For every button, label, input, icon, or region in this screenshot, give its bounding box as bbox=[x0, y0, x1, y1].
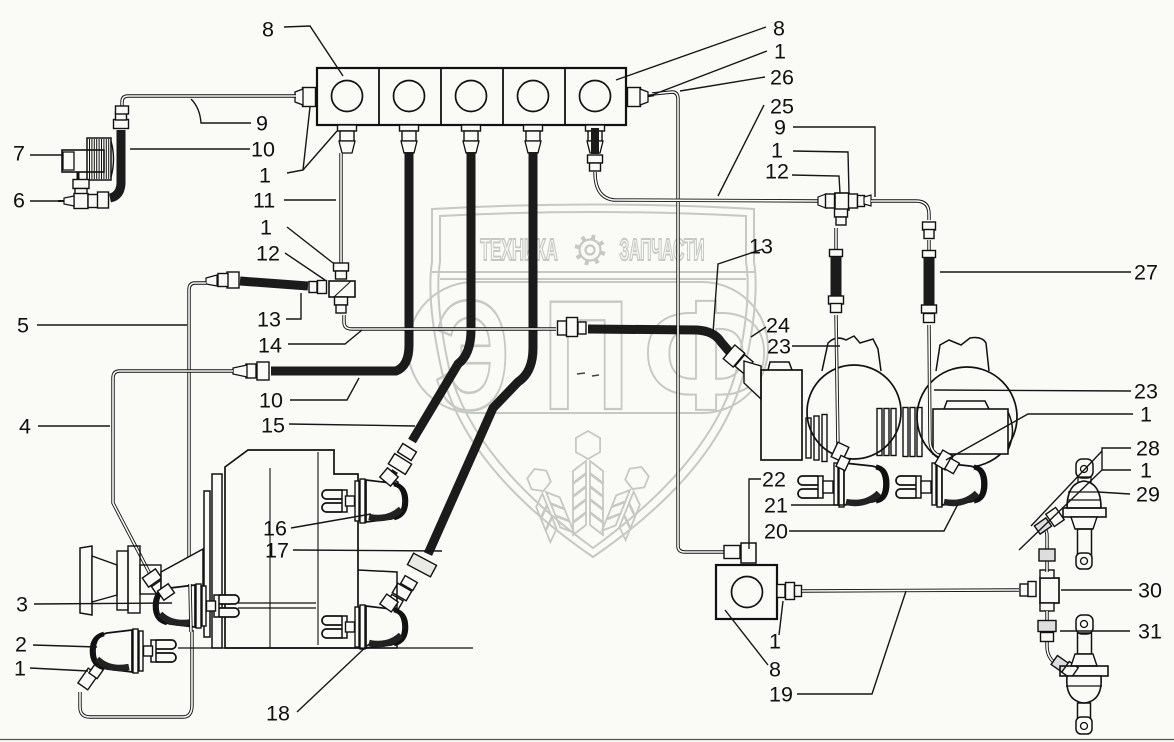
svg-text:10: 10 bbox=[251, 138, 275, 162]
svg-text:28: 28 bbox=[1136, 437, 1160, 461]
svg-text:1: 1 bbox=[1140, 403, 1152, 427]
svg-text:1: 1 bbox=[14, 657, 26, 681]
svg-text:Ф: Ф bbox=[643, 269, 769, 443]
svg-text:1: 1 bbox=[769, 630, 781, 654]
svg-text:12: 12 bbox=[256, 242, 280, 266]
svg-text:16: 16 bbox=[263, 517, 287, 541]
svg-text:8: 8 bbox=[262, 18, 274, 42]
svg-text:18: 18 bbox=[266, 702, 290, 726]
svg-text:9: 9 bbox=[256, 112, 268, 136]
svg-text:23: 23 bbox=[1134, 380, 1158, 404]
svg-text:14: 14 bbox=[258, 334, 282, 358]
svg-text:23: 23 bbox=[767, 335, 791, 359]
svg-text:1: 1 bbox=[260, 216, 272, 240]
svg-text:7: 7 bbox=[13, 142, 25, 166]
svg-text:10: 10 bbox=[259, 389, 283, 413]
svg-text:30: 30 bbox=[1138, 579, 1162, 603]
svg-text:13: 13 bbox=[749, 235, 773, 259]
svg-text:8: 8 bbox=[769, 658, 781, 682]
svg-text:21: 21 bbox=[764, 494, 788, 518]
svg-text:27: 27 bbox=[1134, 261, 1158, 285]
svg-text:9: 9 bbox=[774, 116, 786, 140]
svg-text:12: 12 bbox=[765, 160, 789, 184]
svg-text:5: 5 bbox=[17, 314, 29, 338]
svg-text:13: 13 bbox=[257, 308, 281, 332]
svg-text:29: 29 bbox=[1136, 483, 1160, 507]
svg-text:1: 1 bbox=[1140, 459, 1152, 483]
svg-text:ЗАПЧАСТИ: ЗАПЧАСТИ bbox=[620, 233, 705, 267]
svg-text:11: 11 bbox=[253, 189, 275, 213]
svg-text:2: 2 bbox=[15, 633, 27, 657]
svg-text:3: 3 bbox=[16, 593, 28, 617]
svg-text:П: П bbox=[542, 267, 629, 442]
svg-text:6: 6 bbox=[13, 189, 25, 213]
svg-text:8: 8 bbox=[773, 17, 785, 41]
svg-text:1: 1 bbox=[259, 164, 271, 188]
svg-text:17: 17 bbox=[265, 539, 289, 563]
svg-text:20: 20 bbox=[764, 520, 788, 544]
svg-text:4: 4 bbox=[19, 415, 31, 439]
svg-text:19: 19 bbox=[769, 683, 793, 707]
svg-text:22: 22 bbox=[762, 468, 786, 492]
svg-text:26: 26 bbox=[770, 66, 794, 90]
svg-text:31: 31 bbox=[1138, 620, 1162, 644]
svg-text:ТЕХНИКА: ТЕХНИКА bbox=[480, 234, 558, 268]
svg-text:1: 1 bbox=[774, 40, 786, 64]
svg-text:15: 15 bbox=[261, 414, 285, 438]
